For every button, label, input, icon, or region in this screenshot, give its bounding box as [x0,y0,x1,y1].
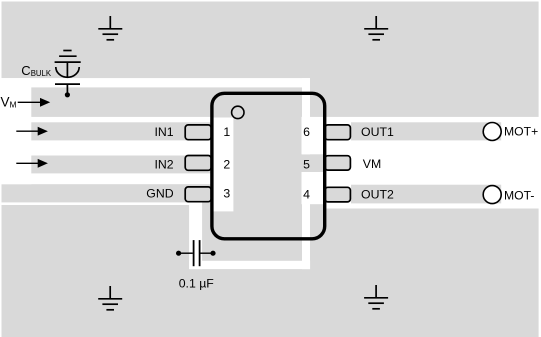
bottom horizontal clearance channel [189,261,310,269]
junction dot on VM trace [65,92,70,97]
capacitor 0.1uF plates [194,240,200,266]
clearance gap above VM trace [0,78,310,87]
IC package outline U1 [212,93,325,239]
pin 5 pad box [325,156,351,170]
pin 1 indicator circle [232,106,244,118]
gap below GND trace [0,202,202,205]
pin 1 pad box [185,125,211,140]
top-left ground [98,16,122,40]
svg-text:2: 2 [223,158,230,172]
svg-text:OUT2: OUT2 [361,187,394,201]
MOT+ terminal circle [483,123,501,141]
pin 2 pad box [185,156,211,171]
svg-text:IN2: IN2 [154,158,173,172]
svg-text:5: 5 [303,158,310,172]
top-center ground [364,16,388,40]
svg-text:MOT-: MOT- [504,188,534,202]
pin 4 clearance finger [302,172,327,204]
bottom-left ground [98,286,122,310]
svg-text:3: 3 [223,187,230,201]
right junction dot [210,251,215,256]
gap between IN1 and IN2 traces [0,140,214,155]
capacitor right wire [200,252,213,254]
svg-text:OUT1: OUT1 [361,125,394,139]
svg-text:MOT+: MOT+ [504,125,538,139]
svg-text:VM: VM [363,157,381,171]
pin 6 clearance finger [302,117,327,154]
OUT2 trace [351,185,501,204]
OUT1 trace [351,122,501,140]
right inside-package clearance strip (upper part) [302,78,310,154]
svg-text:6: 6 [303,125,310,139]
capacitor C_BULK (polarized, to ground) [55,51,81,95]
left junction dot [176,251,181,256]
svg-text:0.1 µF: 0.1 µF [179,277,215,291]
gap between VM and IN1 traces [0,117,214,122]
MOT- terminal circle [483,186,501,204]
GND trace vertical clearance channel [189,202,202,269]
svg-text:GND: GND [146,187,173,201]
capacitor left wire [179,252,193,254]
pin 6 pad box [325,125,351,140]
pin 4 pad box [325,187,351,202]
IN2 input arrow [16,159,48,168]
svg-text:4: 4 [303,188,310,202]
VM input arrow [18,98,51,107]
svg-text:1: 1 [223,125,230,139]
gap between IN2 and GND traces [0,173,214,184]
left inside-package clearance strip [214,118,234,212]
pin 3 pad box [185,187,211,202]
bottom-center ground [364,285,388,309]
IN1 input arrow [16,127,48,136]
svg-text:IN1: IN1 [154,125,173,139]
right inside-package clearance strip (lower part) [302,172,310,269]
left clearance column [0,78,31,184]
right-side white field between traces [326,117,541,209]
